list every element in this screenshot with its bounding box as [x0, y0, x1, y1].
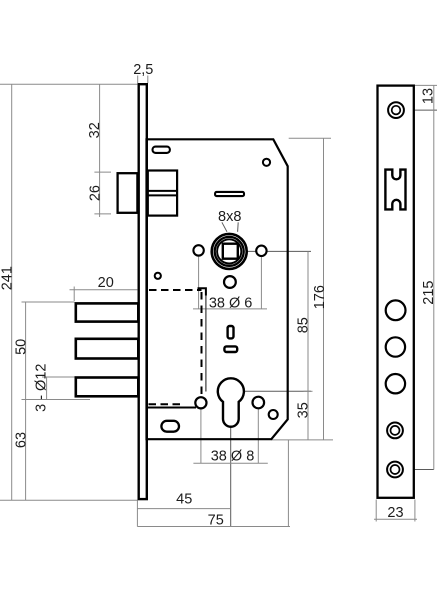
extension Ø8 left hole: [200, 409, 202, 463]
spindle centerline: [231, 250, 312, 252]
dimension line 38Ø8: [193, 462, 267, 464]
latch housing double line top: [148, 190, 177, 192]
hole Ø8 right: [252, 397, 264, 409]
hole below hub: [224, 276, 236, 288]
hole Ø6 left: [193, 245, 203, 255]
dimension line 241: [11, 84, 13, 500]
latch bolt: [118, 173, 138, 213]
cylinder centerline vertical: [230, 391, 232, 526]
dimension line 32/26: [99, 84, 101, 217]
faceplate front view outline: [378, 86, 414, 498]
extension Ø8 right hole: [257, 409, 259, 464]
svg-text:75: 75: [208, 513, 224, 529]
tick 85/35 at cylinder centerline: [304, 390, 313, 392]
extension latch bottom: [94, 213, 111, 215]
svg-text:23: 23: [387, 505, 403, 521]
latch cutout: [385, 170, 405, 210]
hidden mechanism dashed box right: [201, 292, 203, 404]
svg-text:45: 45: [176, 492, 192, 508]
bottom screw hole 2 outer: [387, 462, 403, 478]
faceplate side view: [139, 84, 147, 499]
spindle square 8x8: [223, 244, 238, 259]
svg-text:38 Ø 6: 38 Ø 6: [209, 295, 253, 311]
extension latch top: [94, 171, 111, 173]
tick at bolt3 bottom: [22, 399, 91, 401]
bolt hole 3: [386, 374, 405, 393]
top-right small hole: [263, 159, 270, 166]
spindle hub middle ring: [215, 237, 244, 266]
lock case outline: [147, 139, 288, 439]
dimension line 23: [374, 518, 417, 520]
dimension line 38Ø6: [193, 308, 267, 310]
dimension line 50/63: [25, 302, 27, 500]
latch housing: [148, 171, 177, 216]
extension bolt left edge: [73, 287, 75, 302]
dimension line 13/215: [433, 85, 435, 469]
latch housing double line bottom: [148, 194, 177, 196]
svg-text:2,5: 2,5: [133, 62, 153, 78]
dimension 3-Ø12 bracket: [46, 377, 48, 400]
dimension line 176: [323, 138, 325, 440]
cylinder centerline horizontal: [231, 390, 311, 392]
small vertical slot: [228, 326, 234, 338]
svg-text:13: 13: [421, 88, 437, 104]
svg-text:32: 32: [87, 122, 103, 138]
svg-text:8x8: 8x8: [218, 209, 241, 225]
small horizontal slot: [224, 346, 237, 352]
case bottom extension right: [272, 439, 334, 441]
dimension line 20: [70, 289, 138, 291]
spindle hub inner ring: [217, 239, 241, 263]
bolt hole 1: [386, 300, 406, 320]
bottom extension line: [0, 499, 138, 501]
hidden mechanism dashed box bottom: [149, 403, 185, 405]
euro cylinder hole: [218, 378, 244, 426]
thin vertical internal line: [205, 296, 207, 392]
mid horizontal slot: [215, 192, 244, 196]
tick at bolt1 top: [22, 301, 75, 303]
extension Ø6 left hole: [198, 256, 200, 309]
svg-text:50: 50: [13, 339, 29, 355]
extension case right edge down: [287, 440, 289, 527]
dimension line 85/35: [307, 251, 309, 440]
bottom screw hole 1 inner: [391, 426, 400, 435]
spindle hub outer ring: [212, 234, 247, 269]
svg-text:176: 176: [312, 285, 328, 309]
top screw hole outer: [388, 102, 404, 118]
extension faceplate bottom-left corner: [136, 500, 138, 526]
top-left slot: [153, 147, 170, 153]
dimension line 45: [137, 508, 230, 510]
solid corner bracket: [198, 288, 206, 295]
leader 8x8 right: [237, 222, 240, 232]
bottom-right small hole: [269, 410, 278, 419]
dimension line 75: [137, 526, 290, 528]
hidden mechanism dashed box top: [149, 289, 202, 291]
svg-text:241: 241: [0, 266, 16, 290]
bottom-left slot: [161, 421, 179, 432]
top screw hole inner: [392, 106, 401, 115]
extension 2,5 right: [147, 76, 149, 84]
svg-text:85: 85: [295, 317, 311, 333]
extension plate bottom-left: [375, 500, 377, 522]
case top extension right: [289, 137, 331, 139]
bolt hole 2: [386, 337, 405, 356]
case left small hole: [155, 273, 161, 279]
internal horizontal edge: [147, 407, 196, 409]
top extension line: [0, 83, 137, 85]
leader 8x8 left: [222, 222, 227, 232]
bottom screw hole 1 outer: [387, 423, 403, 439]
tick at bolt3 top: [42, 376, 75, 378]
svg-text:35: 35: [295, 402, 311, 418]
plate top extension right: [415, 84, 437, 86]
svg-text:63: 63: [13, 432, 29, 448]
svg-text:3 - Ø12: 3 - Ø12: [34, 364, 50, 412]
hole Ø8 left: [195, 397, 206, 408]
deadbolt bar 2: [76, 339, 139, 359]
screw top centerline: [396, 109, 437, 111]
bottom screw hole 2 inner: [391, 465, 400, 474]
extension Ø6 right hole: [260, 257, 262, 309]
screw bottom centerline: [395, 469, 434, 471]
hole Ø6 right: [256, 246, 266, 256]
deadbolt bar 1: [76, 303, 139, 321]
svg-text:215: 215: [421, 280, 437, 304]
deadbolt bar 3: [76, 378, 139, 397]
svg-text:20: 20: [98, 275, 114, 291]
extension 2,5 left: [137, 76, 139, 84]
svg-text:38 Ø 8: 38 Ø 8: [211, 448, 255, 464]
svg-text:26: 26: [88, 185, 104, 201]
extension plate bottom-right: [414, 500, 416, 522]
